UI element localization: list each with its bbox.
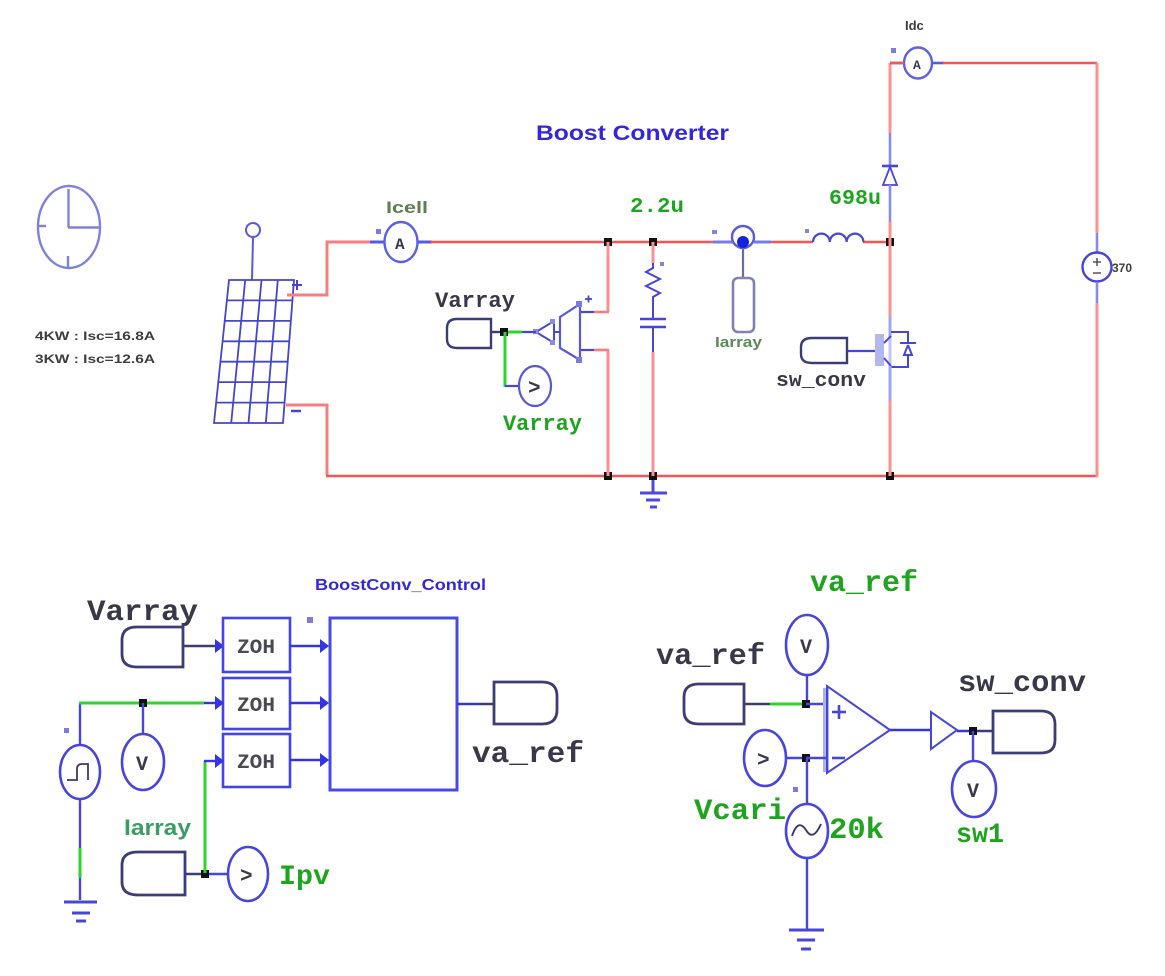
step source Vstep	[60, 728, 100, 799]
ground (top circuit)	[640, 480, 667, 507]
wire block output	[457, 703, 495, 705]
wire ZOH3 to block	[290, 759, 321, 761]
label box va_ref (output)	[494, 682, 557, 724]
wire Idc right to corner	[943, 62, 1097, 65]
wire plus node to comparator	[806, 703, 826, 705]
svg-text:Idc: Idc	[905, 18, 924, 33]
solar PV array module	[214, 223, 302, 423]
svg-text:va_ref: va_ref	[472, 738, 584, 772]
node comparator plus	[802, 700, 810, 708]
ground (bottom left)	[64, 902, 97, 921]
wire R to C	[652, 303, 654, 318]
wire sensor top lead	[580, 311, 609, 314]
probe carrier	[744, 730, 786, 786]
wire node to label	[977, 730, 994, 732]
wire source lead blue upper	[1096, 233, 1099, 253]
svg-text:370: 370	[1112, 261, 1132, 275]
wire top rail segment B	[770, 241, 813, 244]
arrowhead into ZOH3	[215, 754, 224, 768]
svg-text:va_ref: va_ref	[656, 640, 765, 674]
wire node to V meter	[142, 703, 144, 734]
svg-text:Varray: Varray	[435, 289, 515, 314]
wire switch branch red lower	[889, 401, 892, 476]
wire C lead blue	[652, 327, 654, 352]
svg-text:V: V	[800, 637, 812, 660]
svg-text:>: >	[240, 866, 253, 889]
wire diode branch red lower	[889, 222, 892, 242]
svg-text:20k: 20k	[829, 814, 884, 848]
svg-text:2.2u: 2.2u	[630, 196, 684, 219]
wire PV terminal stem	[252, 237, 253, 280]
wire ZOH2 to block	[290, 702, 321, 704]
svg-text:Varray: Varray	[87, 596, 198, 630]
wire node to Ipv probe	[209, 873, 228, 875]
arrowhead block in3	[320, 753, 329, 767]
svg-text:A: A	[913, 58, 921, 73]
wire source lead blue lower	[1096, 282, 1099, 303]
wire green vertical to ZOH3	[204, 761, 207, 873]
inductor L 698u	[805, 229, 863, 242]
label box va_ref (input)	[684, 684, 744, 724]
probe Ipv	[228, 847, 268, 901]
label box Varray (top)	[447, 319, 491, 348]
arrowhead into ZOH2	[215, 696, 224, 710]
svg-text:sw_conv: sw_conv	[958, 667, 1086, 701]
ZOH block 2	[223, 678, 290, 729]
sine source Vcari	[786, 787, 828, 858]
wire diode lead blue lower	[889, 185, 892, 222]
resistor R (zigzag)	[646, 263, 660, 303]
wire probe to pill	[742, 248, 744, 278]
arrowhead block in2	[320, 696, 329, 710]
probe Varray	[519, 366, 551, 406]
clock (simulation control)	[37, 186, 100, 268]
wire sensor branch lower (red)	[607, 350, 610, 476]
wire switch branch red upper	[889, 242, 892, 316]
PV minus mark	[291, 410, 301, 413]
svg-text:Varray: Varray	[503, 412, 582, 437]
wire sensor branch upper (red)	[607, 242, 610, 312]
svg-text:ZOH: ZOH	[237, 695, 275, 718]
wire PV plus to top rail	[287, 242, 371, 295]
svg-text:Iarray: Iarray	[124, 815, 192, 840]
wire ZOH1 to block	[290, 645, 321, 647]
label box Iarray	[122, 852, 185, 895]
svg-text:V: V	[967, 781, 979, 804]
wire right rail red lower	[1096, 303, 1099, 477]
capacitor C plates	[640, 319, 666, 327]
ammeter Icell	[370, 222, 432, 262]
wire comparator output	[890, 729, 932, 731]
wire sensor bottom lead	[580, 349, 609, 352]
wire green vertical to probe	[504, 332, 507, 387]
svg-text:Iarray: Iarray	[715, 334, 763, 351]
svg-text:ZOH: ZOH	[237, 637, 275, 660]
node bottom rail x608	[604, 472, 612, 480]
wire buffer to node	[957, 730, 975, 732]
node step/V tap	[139, 699, 147, 707]
wire va_ref label out	[744, 703, 803, 705]
transistor Q sw (IGBT with diode)	[875, 332, 916, 367]
wire green to node	[79, 702, 144, 705]
node bottom rail x889	[886, 472, 894, 480]
node sw_conv tap	[969, 727, 977, 735]
voltmeter sw1	[952, 761, 996, 817]
wire minus node to sine source	[806, 758, 808, 806]
buffer triangle	[931, 712, 957, 749]
wire switch lead blue lower	[889, 366, 892, 401]
svg-text:>: >	[528, 378, 541, 401]
block star mark	[307, 617, 313, 623]
svg-text:Vcari: Vcari	[694, 795, 786, 829]
node top rail x889	[886, 238, 894, 246]
wire node to voltmeter sw1	[972, 731, 974, 762]
wire diode branch red upper	[889, 63, 892, 133]
voltmeter V (bottom left)	[122, 734, 164, 790]
label box sw_conv (gate)	[801, 338, 847, 363]
wire green from node to gain	[506, 331, 522, 334]
svg-text:sw1: sw1	[956, 820, 1004, 851]
voltmeter V (va_ref)	[786, 615, 828, 675]
node top rail x608	[604, 238, 612, 246]
wire minus node to comparator	[806, 757, 826, 759]
svg-text:V: V	[136, 754, 148, 777]
wire V meter to plus node	[806, 675, 808, 703]
label box Varray (bottom)	[122, 627, 183, 667]
svg-text:A: A	[395, 236, 405, 254]
svg-text:sw_conv: sw_conv	[776, 370, 866, 393]
ammeter Idc	[890, 48, 944, 79]
wire sine source to ground	[806, 858, 808, 929]
gain triangle (pointing left)	[533, 319, 555, 345]
svg-text:698u: 698u	[829, 188, 881, 211]
subcircuit block BoostConv_Control	[330, 618, 457, 790]
arrowhead into ZOH1	[215, 639, 224, 653]
wire switch lead blue upper	[889, 316, 892, 336]
svg-text:Ipv: Ipv	[279, 862, 330, 893]
wire Varray label to ZOH1	[183, 645, 216, 647]
svg-text:Boost Converter: Boost Converter	[536, 122, 729, 145]
node top rail x653	[649, 238, 657, 246]
wire probe to minus node	[786, 757, 806, 759]
svg-text:3KW : Isc=12.6A: 3KW : Isc=12.6A	[35, 352, 155, 366]
diode D	[882, 166, 898, 185]
resistor star mark	[660, 262, 664, 266]
svg-text:BoostConv_Control: BoostConv_Control	[315, 577, 486, 594]
label box sw_conv (right)	[993, 711, 1055, 753]
node Iarray tap	[201, 870, 209, 878]
ZOH block 3	[223, 734, 290, 787]
svg-text:>: >	[757, 750, 770, 773]
PV top terminal	[246, 223, 260, 237]
PV panel body	[214, 280, 294, 423]
wire step source bottom	[79, 799, 81, 900]
DC source Vdc	[1083, 253, 1112, 282]
PV plus mark	[292, 280, 302, 290]
arrowhead block in1	[320, 639, 329, 653]
wire diode lead blue upper	[889, 133, 892, 165]
comparator U1	[823, 686, 890, 773]
wire green node to ZOH2	[147, 702, 204, 705]
wire gate	[847, 350, 875, 352]
wire blue stub to ZOH2 arrow	[204, 702, 216, 704]
pill sensor body	[733, 278, 754, 332]
node comparator minus	[802, 754, 810, 762]
node Varray tap	[500, 328, 508, 336]
wire gain to sensor	[554, 331, 560, 333]
wire blue stub to ZOH3 arrow	[204, 760, 216, 762]
svg-text:4KW : Isc=16.8A: 4KW : Isc=16.8A	[35, 329, 155, 343]
wire step source top	[79, 703, 81, 745]
wire Varray label to node	[491, 331, 503, 333]
wire Iarray label to node	[185, 873, 206, 875]
wire RC branch top red	[652, 242, 655, 263]
wire top rail segment C	[863, 241, 890, 244]
voltage sensor port (trapezoid)	[560, 301, 582, 363]
ground (bottom right)	[789, 930, 824, 949]
wire Idc left	[890, 62, 904, 65]
current probe circle	[712, 226, 771, 248]
wire gain apex blue	[522, 331, 536, 333]
ZOH block 1	[223, 618, 290, 672]
wire bottom rail	[326, 475, 1098, 478]
wire RC branch bottom red	[652, 352, 655, 476]
wire PV minus to bottom rail	[286, 405, 327, 475]
svg-text:va_ref: va_ref	[810, 567, 918, 601]
wire top rail segment A	[431, 241, 714, 244]
wire probe stub	[505, 385, 519, 387]
node bottom rail x653	[649, 472, 657, 480]
sensor plus mark	[585, 296, 592, 303]
svg-text:Icell: Icell	[386, 198, 428, 217]
wire right rail red upper	[1096, 63, 1099, 233]
svg-text:ZOH: ZOH	[237, 752, 275, 775]
